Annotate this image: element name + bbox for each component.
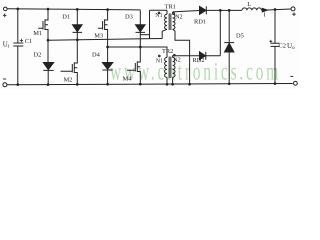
svg-text:D3: D3 xyxy=(125,14,133,21)
svg-text:N1: N1 xyxy=(156,59,163,65)
current arrow I xyxy=(262,8,267,12)
polarity - bottom-left xyxy=(3,78,6,80)
svg-text:M1: M1 xyxy=(33,30,42,37)
polarity - bottom-right xyxy=(290,75,293,77)
diode D4 xyxy=(107,47,109,62)
diode D3 xyxy=(139,10,141,25)
svg-text:M4: M4 xyxy=(123,76,133,83)
TR2 polarity dot N1 xyxy=(159,55,161,57)
polarity + top-right xyxy=(292,12,296,16)
input terminal bottom-left xyxy=(3,83,7,87)
svg-text:TR1: TR1 xyxy=(165,3,176,10)
svg-text:N2: N2 xyxy=(175,15,182,21)
polarity + top-left xyxy=(3,14,7,18)
diode D1 xyxy=(76,9,78,24)
svg-text:C1: C1 xyxy=(25,38,32,45)
rectifier diode RD2 xyxy=(200,52,206,60)
transformer TR1 secondary winding xyxy=(172,12,174,14)
svg-text:N1: N1 xyxy=(155,13,162,19)
svg-text:D4: D4 xyxy=(92,51,101,58)
freewheel diode D5 xyxy=(228,10,230,42)
inductor L xyxy=(242,8,262,10)
svg-text:I: I xyxy=(264,12,266,19)
svg-text:RD1: RD1 xyxy=(194,19,206,26)
wire after inductor xyxy=(262,9,291,10)
svg-text:TR2: TR2 xyxy=(162,48,173,55)
TR1 secondary bottom jog xyxy=(173,29,190,84)
bottom rail xyxy=(7,84,293,85)
svg-text:D5: D5 xyxy=(236,33,244,40)
output terminal bottom-right xyxy=(294,81,298,85)
svg-text:N2: N2 xyxy=(173,58,180,64)
mosfet M3 xyxy=(98,10,108,47)
TR2 secondary top to RD2 xyxy=(173,56,200,58)
svg-text:D2: D2 xyxy=(34,51,42,58)
transformer TR2 primary winding xyxy=(165,58,167,78)
TR1 polarity dot N1 xyxy=(158,12,160,14)
output terminal top-right xyxy=(291,7,295,11)
mosfet M2 xyxy=(61,40,78,85)
riser from RD2 xyxy=(219,10,221,55)
transformer TR2 core xyxy=(169,57,171,78)
transformer TR1 primary winding xyxy=(166,10,168,14)
svg-text:RD2: RD2 xyxy=(193,57,205,64)
capacitor C1 xyxy=(13,9,23,85)
node wire W2 xyxy=(108,47,167,58)
rectifier diode RD1 xyxy=(200,6,207,14)
mosfet M4 xyxy=(127,47,140,84)
TR1 polarity dot N2 xyxy=(173,13,175,15)
C1 plus mark xyxy=(20,39,23,42)
capacitor C2 xyxy=(271,10,280,84)
transformer TR1 core xyxy=(169,14,171,31)
TR2 polarity dot N2 xyxy=(174,54,176,56)
mosfet M1 xyxy=(38,9,48,40)
svg-text:M2: M2 xyxy=(64,76,73,83)
node wire W1 xyxy=(48,39,162,41)
diode D2 xyxy=(47,40,49,62)
svg-text:C2: C2 xyxy=(279,43,286,50)
svg-text:M3: M3 xyxy=(94,32,103,39)
transformer TR2 secondary winding xyxy=(173,58,175,78)
D3 jog to TR1 link xyxy=(140,34,149,36)
svg-text:D1: D1 xyxy=(62,14,70,21)
svg-text:L: L xyxy=(247,1,251,8)
C2 plus mark xyxy=(269,40,272,43)
input terminal top-left xyxy=(4,7,8,11)
secondary top rail to RD1 xyxy=(173,11,200,12)
top rail xyxy=(7,9,140,10)
TR1 primary top link xyxy=(150,10,168,39)
